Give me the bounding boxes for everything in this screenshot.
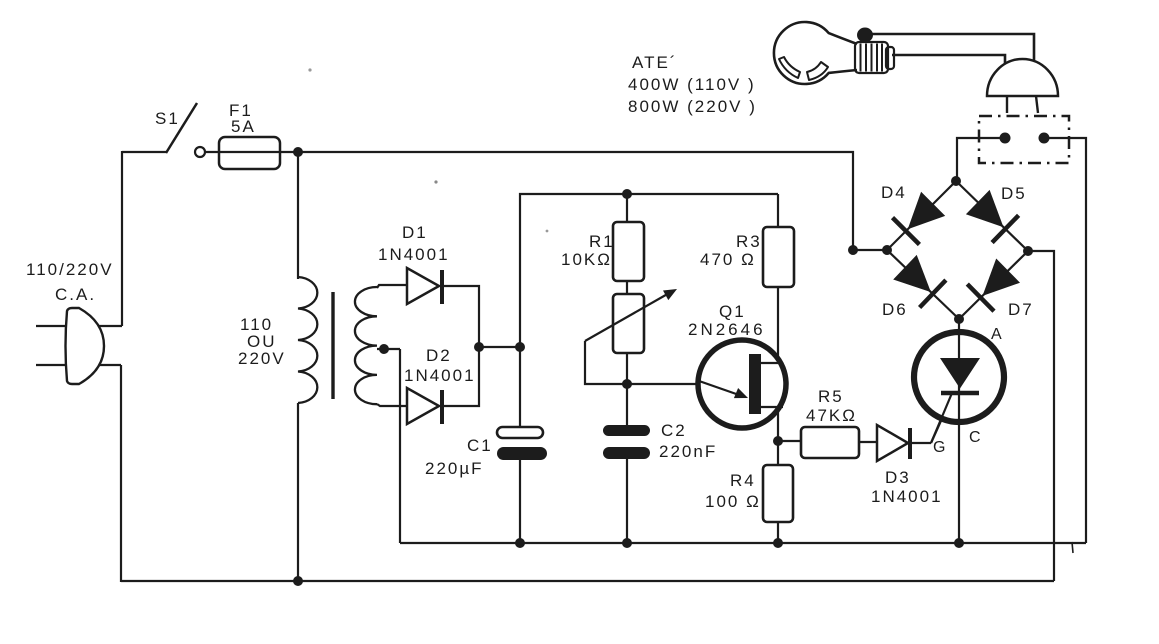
wire outer AC return rail [121,580,1054,582]
svg-text:C2: C2 [661,421,687,440]
svg-text:1N4001: 1N4001 [871,487,943,506]
label S1 [155,109,180,128]
svg-text:R5: R5 [818,387,844,406]
wire secondary top to D1 [377,285,407,288]
lamp screw base outline [855,42,888,73]
wire bridge bottom to SCR anode and cathode lead [958,319,960,543]
capacitor C2 plate1 [603,425,650,436]
lamp plug prong left [1006,96,1008,113]
svg-text:2N2646: 2N2646 [688,320,766,339]
label C1 value [425,459,484,478]
capacitor C1 positive plate [497,427,543,438]
wire P1 bottom lead [626,353,628,384]
lamp plug body [987,59,1058,96]
diode D6 [893,255,931,292]
wire secondary bottom to D2 [377,404,407,406]
unijunction Q1 base bar [749,354,761,414]
label 110/220V [26,260,114,279]
wire DC positive riser [520,194,778,347]
socket pin left [1000,133,1011,144]
svg-text:R1: R1 [589,232,615,251]
wire to bridge left [853,249,887,251]
label D2 [426,346,452,365]
wire D2 to junction [442,347,479,406]
wire R1 to P1 [626,281,628,294]
transformer core [331,292,334,399]
potentiometer P1 arrow shaft [585,292,671,341]
wire AC plug prong top [36,325,122,327]
wire bridge edge top-left [887,181,956,250]
label R5 value [806,406,857,425]
wire R4 top lead [777,441,779,465]
speck 3 [546,230,549,233]
label C2 [661,421,687,440]
wire AC line top-left vertical [121,151,123,326]
unijunction Q1 body [698,340,786,428]
diode D6 cathode bar [920,280,946,307]
wire C2 top [626,384,628,426]
wire lamp cord top [870,34,1034,62]
svg-text:100 Ω: 100 Ω [705,492,761,511]
label C2 value [659,442,717,461]
speck 1 [308,68,311,71]
lamp reflection slit left [779,57,800,78]
label D1 value [378,245,450,264]
svg-text:400W (110V ): 400W (110V ) [628,75,756,94]
junction SCR cathode on rail [954,538,964,548]
lamp reflection slit right [807,62,828,80]
wire node to R5 [778,440,801,442]
speck 2 [434,180,437,183]
junction C2 on rail [622,538,632,548]
artifact tick [1072,542,1073,553]
svg-text:Q1: Q1 [719,302,746,321]
svg-text:47KΩ: 47KΩ [806,406,857,425]
SCR cathode bar [941,391,979,396]
resistor R3 [763,227,794,287]
lamp base end cap [886,47,894,69]
socket outline (dashed) [979,116,1069,163]
capacitor C1 negative plate [497,447,547,460]
wire primary bottom lead [297,403,299,582]
svg-text:C.A.: C.A. [55,285,96,304]
svg-text:220µF: 220µF [425,459,484,478]
label 5A [231,117,256,136]
label R3 value [700,250,756,269]
svg-text:1N4001: 1N4001 [378,245,450,264]
label 110 [240,315,273,334]
svg-text:D2: D2 [426,346,452,365]
wire C2 bottom [626,459,628,543]
junction primary return on rail [293,576,303,586]
wire AC plug prong bottom [36,364,121,366]
wire C1 top [519,347,521,427]
svg-text:220V: 220V [238,349,286,368]
wire R4 bottom lead [777,522,779,543]
wire primary top lead [297,152,299,279]
junction gate drive node [773,436,783,446]
diode D7 cathode bar [967,284,994,311]
svg-text:5A: 5A [231,117,256,136]
svg-text:D1: D1 [402,223,428,242]
capacitor C2 plate2 [603,447,650,459]
lamp plug prong right [1036,96,1038,113]
wire plug to bottom rail vertical [120,365,122,582]
lamp bulb glass [774,22,857,84]
label C [969,429,983,446]
SCR anode triangle [940,358,980,389]
wire inner common rail [400,542,1086,544]
wire lamp cord bottom [892,55,1005,64]
label D4 [881,183,907,202]
label 220V [238,349,286,368]
label D5 [1001,184,1027,203]
unijunction Q1 base1 lead [761,406,783,408]
label R4 value [705,492,761,511]
switch S1 arm [166,103,197,153]
diode D3 cathode bar [908,428,912,459]
wire center tap [377,348,400,350]
wire switch to fuse [205,151,298,153]
label D1 [402,223,428,242]
label R3 [736,232,762,251]
junction R1 rail tap [622,189,632,199]
junction R4 on rail [773,538,783,548]
junction C1 rail tap [515,342,525,352]
junction fuse output node [293,147,303,157]
lamp contact blob [857,28,873,43]
resistor R1 [613,222,644,281]
label ATE [632,53,677,72]
label G [933,439,947,456]
svg-text:ATE´: ATE´ [632,53,677,72]
junction bridge left [882,245,892,255]
SCR gate line inside [931,393,952,443]
svg-text:D7: D7 [1008,300,1034,319]
label D3 value [871,487,943,506]
svg-text:1N4001: 1N4001 [404,366,476,385]
switch S1 wire [122,151,167,153]
junction C1 on rail [515,538,525,548]
svg-text:800W (220V ): 800W (220V ) [628,97,757,116]
resistor R5 [801,427,859,458]
diode D5 [966,190,1004,227]
label R1 value [561,250,612,269]
label C.A. [55,285,96,304]
svg-text:220nF: 220nF [659,442,717,461]
svg-text:R3: R3 [736,232,762,251]
label Q1 [719,302,746,321]
junction bridge bottom [954,314,964,324]
junction rectifier output [474,342,484,352]
svg-text:470 Ω: 470 Ω [700,250,756,269]
wire gate diagonal [931,394,953,443]
label F1 [229,101,253,120]
svg-text:D5: D5 [1001,184,1027,203]
label C1 [467,436,493,455]
diode D3 [877,425,908,461]
svg-text:D3: D3 [885,468,911,487]
potentiometer P1 arrowhead [663,289,677,300]
wire R3 top lead [777,194,779,227]
unijunction Q1 emitter line [699,381,742,396]
wire bridge edge top-right [956,181,1028,251]
label R5 [818,387,844,406]
SCR body [914,332,1004,422]
diode D2 cathode bar [440,390,444,424]
wire D1 to junction [442,286,479,347]
label OU [247,332,277,351]
label 800W (220V ) [628,97,757,116]
resistor R4 [763,465,793,522]
diode D4 cathode bar [893,218,920,245]
wire R1 top lead [626,194,628,222]
diode D7 [983,259,1021,296]
svg-text:C1: C1 [467,436,493,455]
wire D3 to gate bend [910,442,931,444]
label R1 [589,232,615,251]
wire bridge edge bottom-left [887,250,959,319]
fuse F1 [219,137,280,169]
unijunction Q1 emitter arrowhead [734,388,748,398]
junction center tap [379,344,389,354]
switch S1 terminal [195,147,205,157]
transformer T1 primary winding [298,277,317,403]
junction P1/C2/emitter [622,379,632,389]
wire socket left pin to bridge top [957,138,1005,181]
svg-text:D6: D6 [882,300,908,319]
diode D5 cathode bar [992,215,1019,242]
wire rectifier output to C1 rail [479,346,520,348]
svg-text:D4: D4 [881,183,907,202]
label D6 [882,300,908,319]
junction bridge right [1023,246,1033,256]
unijunction Q1 base2 lead [761,362,783,364]
wire R3 to UJT base2 / base1 to R4 [777,287,779,441]
svg-text:R4: R4 [730,471,756,490]
junction top rail corner [848,245,858,255]
label D3 [885,468,911,487]
wire bridge edge bottom-right [959,251,1028,319]
potentiometer P1 body [613,294,644,353]
diode D2 [407,388,439,424]
svg-text:10KΩ: 10KΩ [561,250,612,269]
wire center tap down [399,349,401,543]
svg-text:G: G [933,439,947,456]
svg-text:C: C [969,429,983,446]
label D7 [1008,300,1034,319]
wire C1 bottom [519,460,521,543]
wire top rail [298,152,853,250]
lamp screw base ridges [861,44,883,72]
wire bridge right to outer rail [1028,251,1054,581]
junction bridge top [951,176,961,186]
diode D4 [908,192,946,230]
svg-text:S1: S1 [155,109,180,128]
label 400W (110V ) [628,75,756,94]
label D2 value [404,366,476,385]
wire P1 wiper tie [585,341,700,384]
wire R5 to D3 [859,441,877,443]
wire socket right pin down [1044,138,1086,543]
svg-text:110/220V: 110/220V [26,260,114,279]
svg-text:A: A [991,326,1004,343]
socket pin right [1039,133,1050,144]
diode D1 [407,268,439,304]
diode D1 cathode bar [440,270,444,304]
label Q1 type [688,320,766,339]
label A [991,326,1004,343]
AC plug 110/220V body [66,308,105,384]
label R4 [730,471,756,490]
transformer T1 secondary winding [355,287,377,404]
